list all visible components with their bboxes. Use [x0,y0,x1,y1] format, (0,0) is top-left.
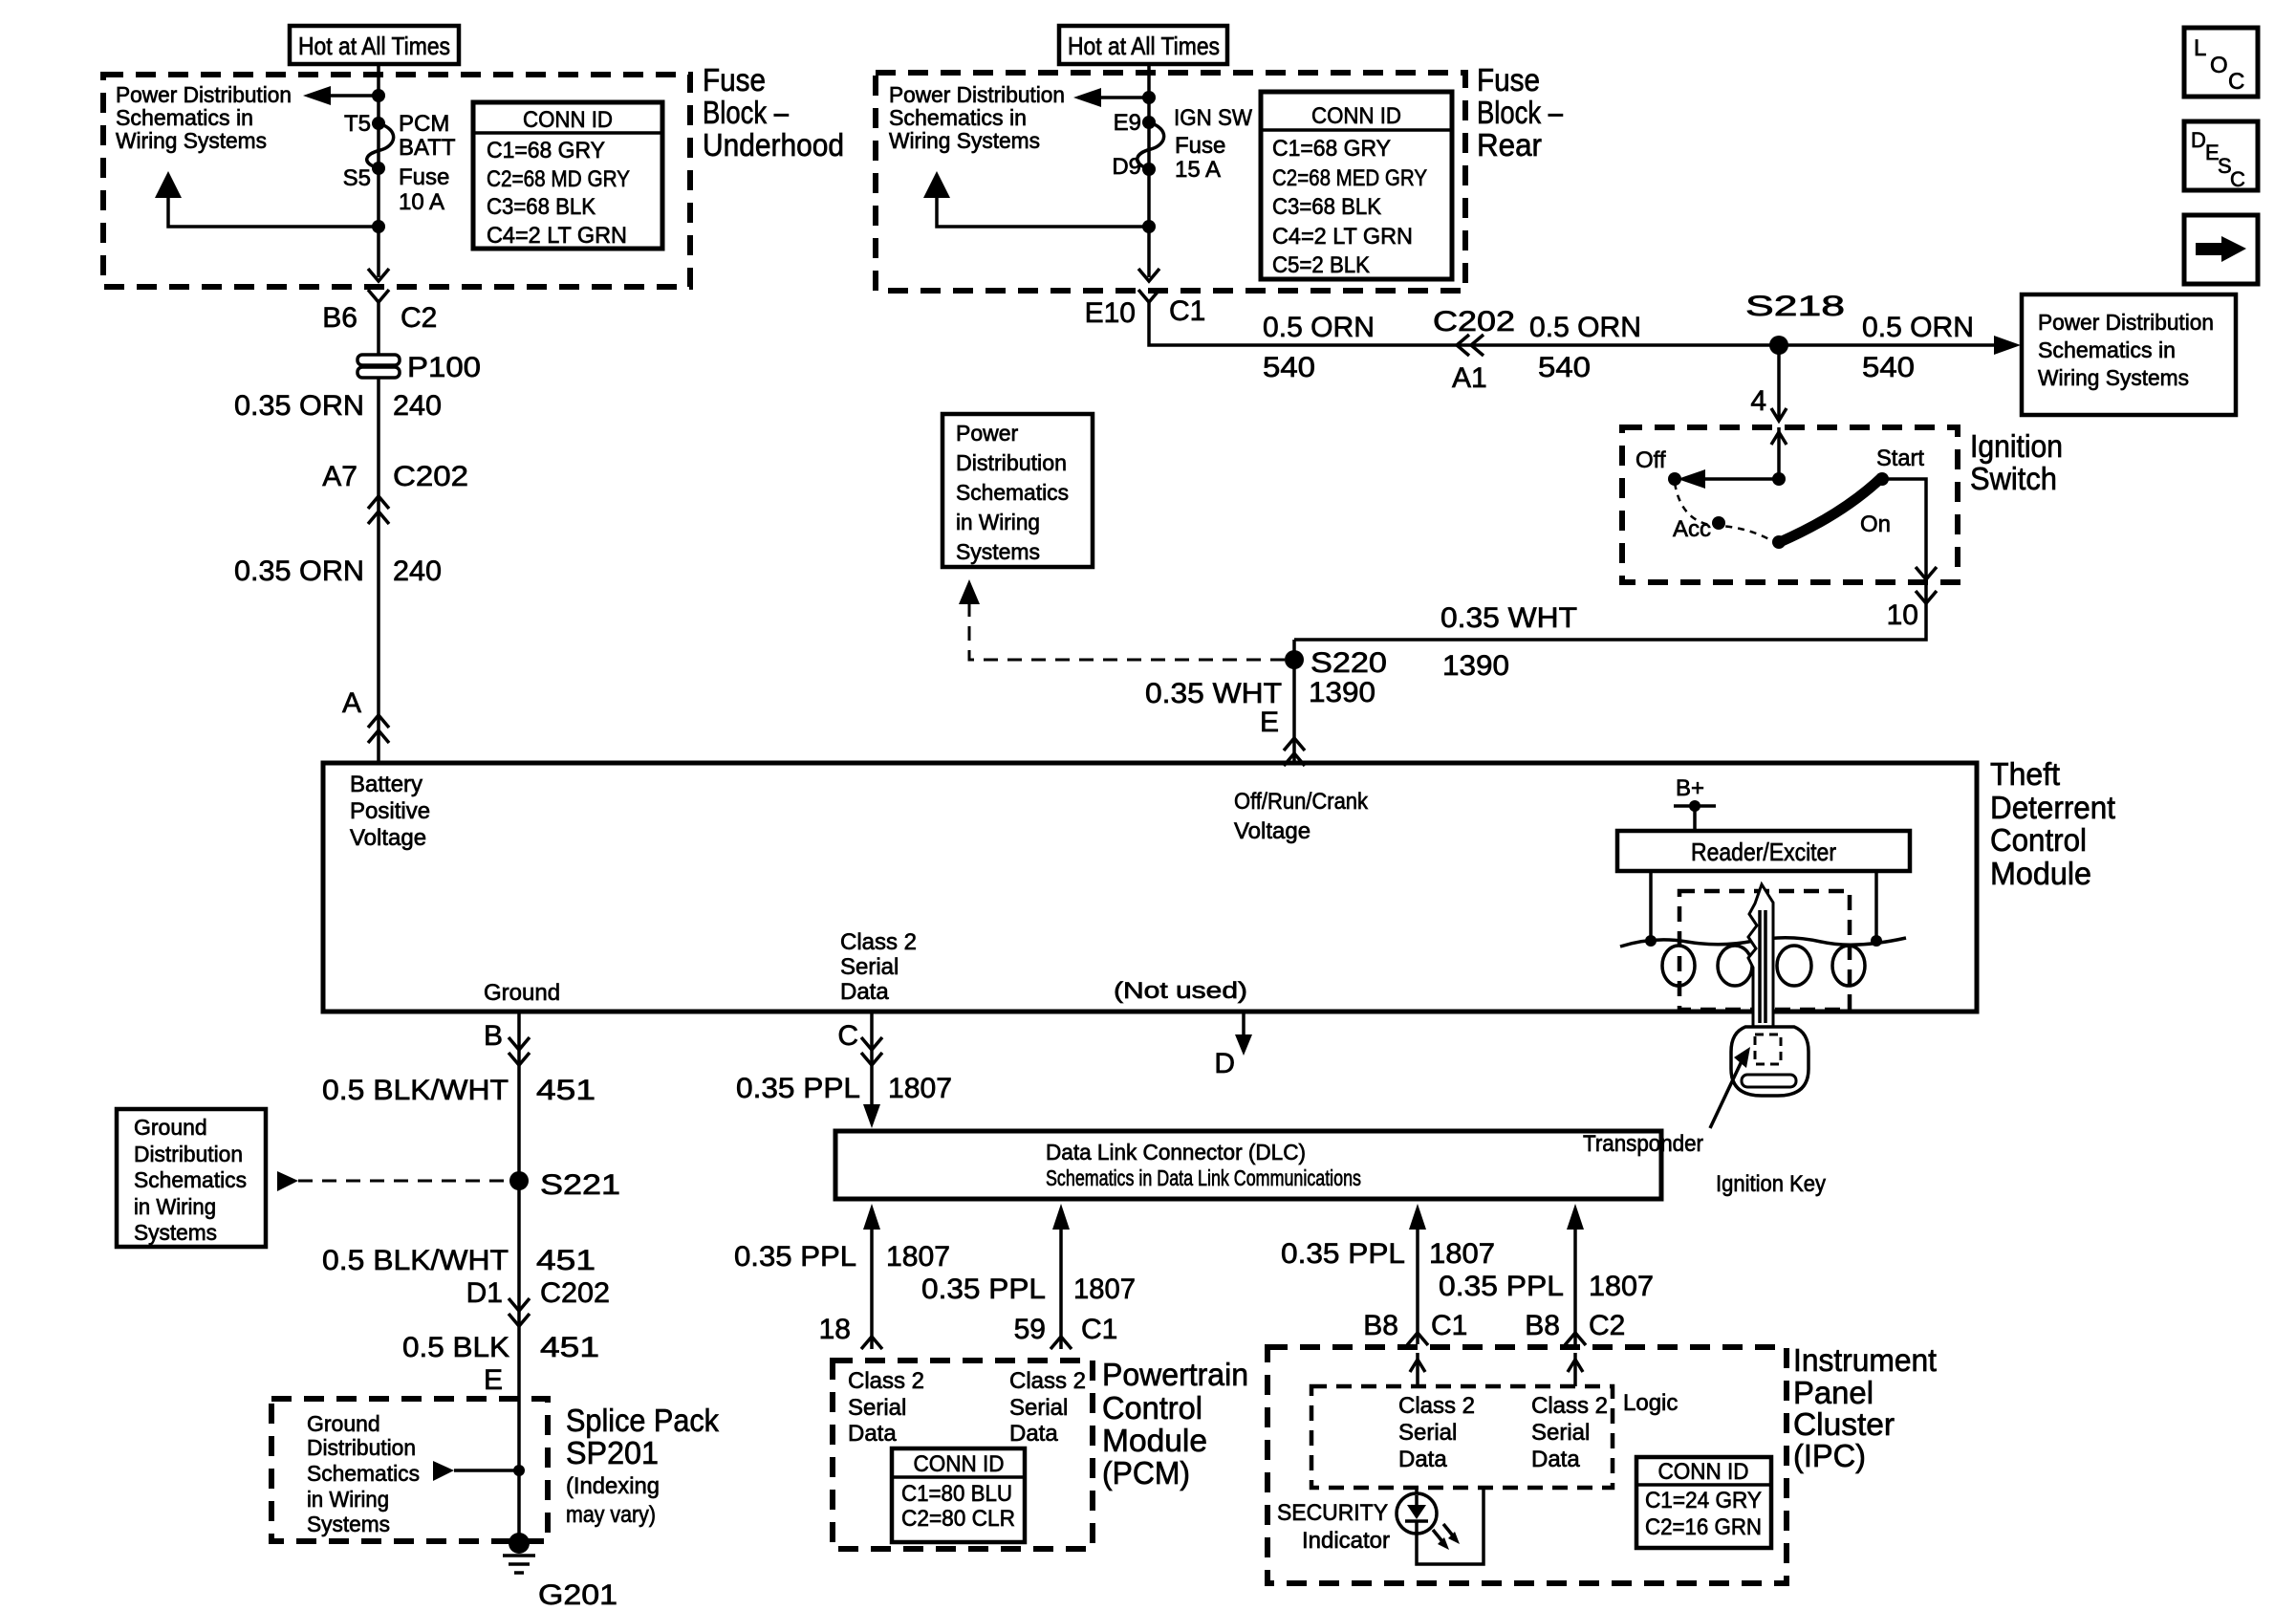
wire down to P100 [377,302,380,356]
arrow to Power Distribution (left) [329,94,379,98]
wire down then right along ORN run [1149,302,1996,345]
wire from Hot box down through fuse [1147,64,1151,277]
Power Distribution box (top right) [2022,294,2236,415]
wiper arrow from pivot to Off [1700,477,1779,481]
svg-text:1807: 1807 [1589,1271,1654,1302]
svg-text:0.35 PPL: 0.35 PPL [921,1274,1046,1305]
svg-text:Positive: Positive [350,798,430,824]
svg-text:Wiring Systems: Wiring Systems [2038,365,2189,390]
svg-text:0.5 BLK: 0.5 BLK [402,1332,509,1363]
Ignition Switch dashed box [1622,427,1958,582]
svg-text:Fuse: Fuse [1175,133,1225,159]
junction to feedback arrow [372,220,385,233]
svg-text:Cluster: Cluster [1793,1406,1895,1442]
svg-text:C5=2 BLK: C5=2 BLK [1272,252,1370,278]
svg-text:0.5 ORN: 0.5 ORN [1263,312,1375,343]
svg-text:Schematics in: Schematics in [2038,337,2176,362]
svg-text:Hot at All Times: Hot at All Times [298,32,450,60]
svg-text:Voltage: Voltage [1234,818,1310,844]
svg-text:C2=68 MED GRY: C2=68 MED GRY [1272,165,1427,191]
svg-text:1390: 1390 [1309,677,1375,708]
four class-2 arrows up into DLC [870,1228,874,1349]
svg-text:240: 240 [393,390,442,422]
junction node [372,89,385,102]
svg-text:T5: T5 [344,111,371,137]
svg-text:A7: A7 [322,461,357,492]
svg-text:CONN ID: CONN ID [914,1451,1005,1477]
svg-text:C3=68 BLK: C3=68 BLK [487,194,596,220]
svg-text:BATT: BATT [399,135,456,161]
svg-text:240: 240 [393,555,442,587]
svg-text:Panel: Panel [1793,1375,1874,1410]
svg-text:CONN ID: CONN ID [1311,103,1401,129]
svg-text:C2: C2 [1589,1310,1625,1341]
svg-text:C1=68 GRY: C1=68 GRY [1272,136,1391,162]
svg-text:0.35 PPL: 0.35 PPL [736,1073,860,1104]
svg-text:D9: D9 [1112,154,1141,180]
key slot [1742,1075,1796,1087]
svg-text:in Wiring: in Wiring [134,1194,216,1219]
svg-text:Schematics in: Schematics in [116,105,253,130]
svg-text:P100: P100 [407,352,481,383]
svg-text:PCM: PCM [399,111,449,137]
svg-text:Serial: Serial [848,1395,906,1421]
svg-text:CONN ID: CONN ID [1658,1459,1749,1485]
svg-text:Data: Data [840,979,889,1005]
svg-text:Data: Data [848,1421,897,1447]
svg-text:L: L [2194,35,2206,61]
svg-text:Serial: Serial [1009,1395,1068,1421]
svg-text:S218: S218 [1745,291,1845,322]
svg-text:On: On [1860,512,1891,537]
wire S218 down to switch, pin 4 [1777,345,1781,421]
svg-text:Switch: Switch [1970,461,2057,496]
Power Distribution box (middle) [942,414,1093,567]
svg-text:Systems: Systems [134,1220,217,1245]
svg-text:B8: B8 [1525,1310,1560,1341]
Hot at All Times box (left) [290,26,459,64]
svg-text:E: E [484,1364,503,1396]
svg-text:Block –: Block – [1477,95,1564,130]
pin 10 connector [1916,591,1937,603]
svg-text:18: 18 [819,1314,851,1345]
svg-text:E: E [1260,707,1279,738]
CONN ID table (PCM) [892,1448,1025,1542]
svg-text:Powertrain: Powertrain [1102,1357,1248,1392]
svg-text:CONN ID: CONN ID [523,107,613,133]
svg-text:Theft: Theft [1990,756,2060,792]
svg-text:Hot at All Times: Hot at All Times [1068,32,1220,60]
svg-text:C2=16 GRN: C2=16 GRN [1645,1514,1762,1540]
svg-text:Power Distribution: Power Distribution [2038,310,2214,335]
svg-text:A: A [342,687,361,719]
svg-text:Systems: Systems [307,1512,390,1536]
svg-text:C1=24 GRY: C1=24 GRY [1645,1488,1762,1513]
svg-text:(Indexing: (Indexing [566,1473,660,1499]
Data Link Connector box [835,1131,1661,1199]
svg-text:C1=68 GRY: C1=68 GRY [487,138,605,163]
svg-text:Ignition Key: Ignition Key [1716,1171,1826,1197]
svg-text:Control: Control [1102,1390,1202,1426]
svg-text:C202: C202 [1433,306,1515,337]
svg-text:Data: Data [1531,1447,1580,1472]
svg-text:4: 4 [1750,385,1766,417]
svg-text:S220: S220 [1310,647,1387,679]
svg-text:B: B [484,1020,503,1052]
svg-text:Serial: Serial [1398,1420,1457,1446]
CONN ID table (rear) [1261,92,1452,279]
wire to C202 [377,378,380,763]
svg-text:15 A: 15 A [1175,157,1221,183]
svg-text:Off: Off [1635,447,1666,473]
svg-text:Acc: Acc [1673,516,1711,542]
svg-text:Data: Data [1009,1421,1058,1447]
wire Start to pin 10 [1294,479,1926,640]
svg-text:Reader/Exciter: Reader/Exciter [1691,838,1836,866]
LOC icon box [2184,28,2258,97]
svg-text:C: C [2230,167,2245,191]
svg-text:S5: S5 [343,165,371,191]
svg-text:C2=80 CLR: C2=80 CLR [901,1506,1015,1532]
CONN ID table (underhood) [473,102,662,249]
dashed branch from S220 to Power Distribution box [969,602,1285,660]
wire from Hot box down through fuse [377,64,380,277]
svg-text:Start: Start [1876,446,1924,471]
IPC dashed box [1267,1347,1787,1583]
svg-text:C1=80 BLU: C1=80 BLU [901,1481,1012,1507]
svg-text:Class 2: Class 2 [1398,1393,1475,1419]
svg-text:Schematics in: Schematics in [889,105,1027,130]
svg-text:0.5 ORN: 0.5 ORN [1862,312,1974,343]
junction to feedback arrow [1142,220,1156,233]
arrowhead into PD box [1994,336,2021,355]
svg-text:in Wiring: in Wiring [956,510,1040,534]
svg-text:Splice Pack: Splice Pack [566,1403,719,1438]
svg-text:0.35 PPL: 0.35 PPL [734,1241,856,1273]
svg-text:D: D [2191,128,2206,152]
Fuse Block Rear dashed box [876,73,1465,291]
svg-text:C: C [2228,69,2244,95]
forward arrow icon box [2184,215,2258,284]
svg-text:Underhood: Underhood [703,127,844,163]
svg-text:Module: Module [1990,856,2091,891]
exit arrow + connector E10/C1 [1138,269,1159,281]
key bow [1731,1027,1809,1096]
svg-text:Ignition: Ignition [1970,428,2063,464]
svg-text:Off/Run/Crank: Off/Run/Crank [1234,789,1369,815]
svg-text:O: O [2210,53,2228,78]
pin B ground wire [517,1010,521,1543]
svg-text:IGN SW: IGN SW [1174,105,1252,131]
svg-text:451: 451 [536,1075,596,1106]
LED return wire [1417,1488,1484,1564]
Ground Distribution box [117,1109,266,1247]
pin D (not used) stub [1242,1010,1245,1042]
S220 splice [1292,640,1296,763]
P100 grommet [357,355,400,365]
svg-text:may vary): may vary) [566,1502,656,1528]
svg-text:1807: 1807 [1073,1274,1136,1305]
svg-text:540: 540 [1862,352,1915,383]
DESC icon box [2184,121,2258,190]
svg-text:Schematics in Data Link Commun: Schematics in Data Link Communications [1046,1165,1361,1190]
pin C serial data wire with arrow into DLC [870,1010,874,1114]
svg-text:Ground: Ground [484,980,560,1006]
svg-text:B+: B+ [1676,775,1704,801]
svg-text:Distribution: Distribution [134,1142,243,1166]
svg-text:A1: A1 [1452,362,1487,394]
ignition key blade [1748,884,1773,1029]
svg-text:B6: B6 [322,302,357,334]
coil loops [1662,946,1695,986]
svg-text:B8: B8 [1363,1310,1398,1341]
svg-text:0.5 ORN: 0.5 ORN [1529,312,1641,343]
svg-text:0.35 PPL: 0.35 PPL [1281,1238,1405,1270]
fuse IGN SW 15A [1137,122,1164,169]
Hot at All Times box (right) [1059,26,1227,64]
Fuse Block Underhood dashed box [103,75,690,287]
svg-text:Ground: Ground [134,1115,207,1140]
svg-text:Rear: Rear [1477,127,1542,163]
svg-text:E9: E9 [1114,110,1141,136]
svg-text:C202: C202 [540,1277,610,1309]
coil feed wires [1649,871,1653,941]
svg-text:Class 2: Class 2 [1531,1393,1608,1419]
svg-text:C: C [837,1020,858,1052]
pivot node [1772,472,1786,486]
svg-text:0.35 PPL: 0.35 PPL [1439,1271,1564,1302]
svg-text:C1: C1 [1169,295,1205,327]
feed into switch with up arrow to pivot [1777,427,1781,479]
svg-text:0.35 ORN: 0.35 ORN [234,555,364,587]
svg-text:540: 540 [1538,352,1591,383]
svg-text:C1: C1 [1431,1310,1467,1341]
svg-text:C2: C2 [401,302,437,334]
svg-text:Wiring Systems: Wiring Systems [116,128,267,153]
svg-text:in Wiring: in Wiring [307,1487,389,1512]
svg-text:Distribution: Distribution [307,1435,416,1460]
svg-text:Control: Control [1990,822,2087,858]
Theft Deterrent Control Module box [323,763,1977,1012]
logic inner dashed box [1311,1386,1613,1488]
svg-text:E10: E10 [1085,297,1136,329]
triangle + dashed link to S221 [277,1171,298,1191]
svg-text:1807: 1807 [888,1073,952,1104]
svg-text:(Not used): (Not used) [1114,978,1247,1004]
svg-text:Power Distribution: Power Distribution [116,82,292,107]
svg-text:Schematics: Schematics [134,1167,247,1192]
triangle + link to wire [433,1461,454,1481]
svg-text:Schematics: Schematics [956,480,1069,505]
svg-text:10 A: 10 A [399,189,444,215]
svg-text:Class 2: Class 2 [840,929,917,955]
svg-text:Schematics: Schematics [307,1461,420,1486]
svg-text:Battery: Battery [350,772,422,797]
svg-text:10: 10 [1887,599,1918,631]
svg-text:0.5 BLK/WHT: 0.5 BLK/WHT [322,1245,509,1276]
LED emission arrows [1433,1530,1445,1545]
svg-text:Power Distribution: Power Distribution [889,82,1065,107]
svg-text:Module: Module [1102,1423,1207,1458]
connector forks at PCM edge [861,1337,882,1349]
svg-text:C3=68 BLK: C3=68 BLK [1272,194,1381,220]
svg-text:Class 2: Class 2 [1009,1368,1086,1394]
svg-text:0.35 WHT: 0.35 WHT [1440,602,1577,634]
svg-text:0.5 BLK/WHT: 0.5 BLK/WHT [322,1075,509,1106]
svg-text:SECURITY: SECURITY [1277,1500,1388,1526]
svg-text:D: D [1214,1048,1235,1079]
svg-text:59: 59 [1014,1314,1046,1345]
svg-text:C4=2 LT GRN: C4=2 LT GRN [1272,224,1413,250]
svg-text:451: 451 [540,1332,599,1363]
S221 splice [509,1171,529,1190]
svg-text:Serial: Serial [840,954,899,980]
exit arrow + connector B6/C2 [368,269,389,281]
svg-text:D1: D1 [466,1277,503,1309]
internal wires with up arrows into logic [1416,1353,1419,1386]
svg-text:Fuse: Fuse [703,62,766,98]
Splice Pack dashed box [271,1399,548,1541]
svg-text:(PCM): (PCM) [1102,1455,1190,1491]
arrow to Power Distribution (left) [1099,96,1149,99]
svg-text:540: 540 [1263,352,1315,383]
svg-text:Voltage: Voltage [350,825,426,851]
svg-text:Block –: Block – [703,95,790,130]
svg-text:Data Link Connector (DLC): Data Link Connector (DLC) [1046,1140,1306,1165]
svg-text:C4=2 LT GRN: C4=2 LT GRN [487,223,627,249]
svg-text:Fuse: Fuse [1477,62,1540,98]
svg-text:G201: G201 [538,1579,617,1611]
Reader/Exciter [1617,831,1910,871]
svg-text:1807: 1807 [886,1241,950,1273]
svg-text:Class 2: Class 2 [848,1368,924,1394]
PCM dashed box [833,1361,1093,1549]
svg-text:Power: Power [956,421,1019,446]
svg-text:Ground: Ground [307,1411,380,1436]
connector forks at IPC edge [1407,1333,1428,1345]
svg-text:1390: 1390 [1442,650,1509,682]
svg-text:Fuse: Fuse [399,164,449,190]
CONN ID table (IPC) [1636,1457,1771,1548]
svg-text:451: 451 [536,1245,596,1276]
svg-text:C202: C202 [393,461,468,492]
svg-text:Wiring Systems: Wiring Systems [889,128,1040,153]
svg-text:C2=68 MD GRY: C2=68 MD GRY [487,166,630,192]
fuse PCM BATT 10A [367,123,394,168]
thick key-sweep arc [1780,477,1882,542]
svg-text:Serial: Serial [1531,1420,1590,1446]
svg-text:Logic: Logic [1623,1390,1678,1416]
svg-text:Systems: Systems [956,539,1040,564]
svg-text:1807: 1807 [1429,1238,1495,1270]
transponder dashed outline [1755,1034,1781,1064]
svg-text:(IPC): (IPC) [1793,1438,1866,1473]
svg-text:Data: Data [1398,1447,1447,1472]
G201 ground [509,1533,530,1554]
svg-text:SP201: SP201 [566,1435,659,1470]
svg-text:Transponder: Transponder [1583,1131,1703,1157]
junction node [1142,91,1156,104]
svg-text:Distribution: Distribution [956,450,1067,475]
svg-text:Deterrent: Deterrent [1990,790,2115,825]
svg-text:C1: C1 [1081,1314,1117,1345]
wavy coil line [1620,938,1906,947]
svg-text:0.35 ORN: 0.35 ORN [234,390,364,422]
svg-text:Indicator: Indicator [1302,1528,1390,1554]
antenna dashed zone [1679,891,1850,1010]
svg-text:Instrument: Instrument [1793,1342,1937,1378]
svg-text:S221: S221 [540,1169,620,1201]
svg-text:0.35 WHT: 0.35 WHT [1145,678,1282,709]
dashed travel curve Off-Acc-On [1675,483,1774,542]
